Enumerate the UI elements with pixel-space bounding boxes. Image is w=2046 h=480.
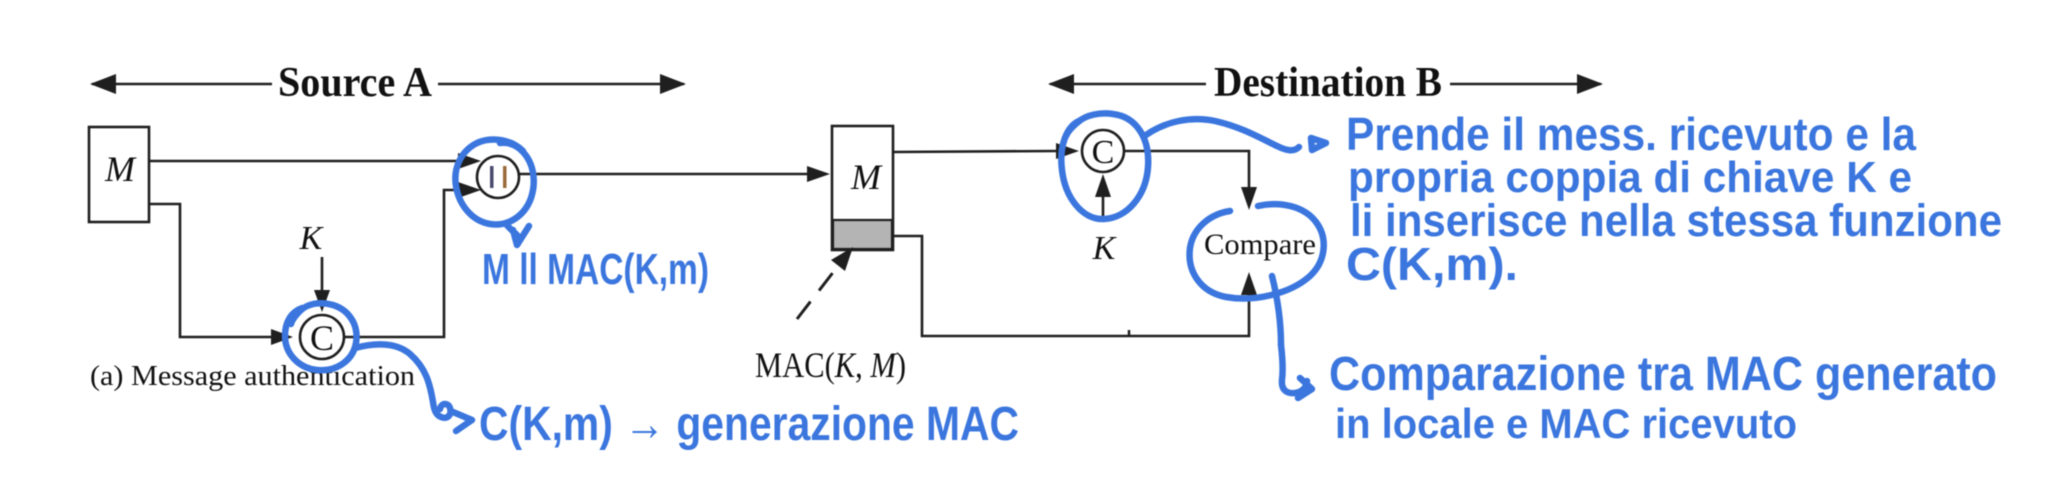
wire C up to concat (344, 182, 481, 337)
Destination B span arrow (1048, 60, 1603, 106)
concat circle || (477, 156, 519, 198)
wire concat to M transmitted (519, 166, 830, 182)
wire M transmitted to C dest (893, 143, 1079, 159)
svg-text:Destination B: Destination B (1214, 60, 1442, 106)
wire M down to C (149, 204, 293, 345)
svg-text:K: K (1092, 230, 1118, 267)
ink loop around Compare (1190, 204, 1324, 345)
svg-text:(a) Message authentication: (a) Message authentication (90, 361, 415, 392)
dashed pointer to MAC band (797, 247, 853, 319)
svg-text:C: C (310, 318, 334, 358)
wire MAC band to Compare (bottom) (893, 236, 1257, 336)
svg-text:Source A: Source A (278, 60, 433, 106)
ink loop around C dest (1061, 113, 1148, 219)
junction tick on bottom wire (1128, 330, 1131, 336)
Source A span arrow (90, 60, 686, 106)
ink curve to comparazione note (1281, 345, 1312, 398)
arrow K into C dest (1095, 174, 1111, 222)
ink curve from C to note (355, 344, 472, 431)
box M source (89, 127, 149, 222)
svg-text:in locale e MAC ricevuto: in locale e MAC ricevuto (1335, 400, 1797, 447)
svg-text:Comparazione tra MAC generato: Comparazione tra MAC generato (1329, 348, 1997, 401)
MAC function C source (300, 315, 344, 359)
ink loop around C source (285, 303, 357, 370)
arrow K into C (314, 257, 330, 312)
svg-text:C: C (1092, 134, 1115, 171)
MAC function C dest (1082, 130, 1124, 172)
svg-text:MAC(K, M): MAC(K, M) (755, 345, 906, 385)
svg-text:M ll MAC(K,m): M ll MAC(K,m) (482, 245, 709, 294)
svg-text:M: M (104, 149, 137, 189)
wire C dest down to Compare (1124, 151, 1257, 210)
svg-text:Compare: Compare (1204, 228, 1316, 261)
svg-text:M: M (850, 157, 883, 197)
ink loop around concat (455, 140, 533, 245)
svg-text:C(K,m) → generazione MAC: C(K,m) → generazione MAC (479, 398, 1019, 451)
svg-text:C(K,m).: C(K,m). (1346, 238, 1518, 290)
ink curve C dest to note (1146, 119, 1326, 150)
box M transmitted with MAC band (832, 126, 893, 250)
wire M to concat (top) (149, 153, 481, 169)
svg-text:K: K (299, 220, 325, 257)
